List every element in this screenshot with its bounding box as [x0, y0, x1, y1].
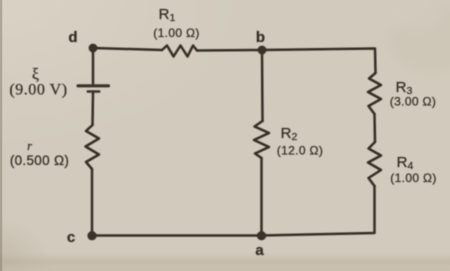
wire: R3 to R4 [373, 114, 376, 142]
node a junction dot [257, 231, 266, 240]
svg-text:(12.0 Ω): (12.0 Ω) [277, 144, 323, 158]
svg-text:r: r [27, 139, 32, 153]
svg-text:c: c [67, 229, 75, 246]
wire: node a to node c (bottom wire) [92, 234, 262, 237]
resistor r [86, 125, 100, 169]
resistor R2 [254, 121, 269, 158]
svg-text:b: b [256, 29, 265, 46]
wire: R1 to node b [197, 49, 262, 52]
svg-text:d: d [68, 29, 77, 46]
wire: node b to top right corner, down right side to R3 [262, 49, 376, 74]
node c junction dot [87, 231, 96, 240]
wire: battery to resistor r [91, 93, 94, 126]
svg-text:(3.00 Ω): (3.00 Ω) [390, 95, 436, 109]
wire: node d down to battery [92, 48, 95, 84]
svg-text:(0.500 Ω): (0.500 Ω) [10, 153, 69, 168]
wire: R2 down to node a [260, 158, 263, 236]
battery plate long (positive) [77, 84, 111, 87]
battery plate short (negative) [87, 90, 101, 93]
node b junction dot [258, 46, 267, 55]
resistor R4 [368, 142, 381, 186]
wire: R4 to bottom right corner to node a [262, 186, 375, 236]
wire: node b down to R2 [261, 50, 264, 121]
resistor R1 [162, 46, 197, 57]
svg-text:a: a [255, 242, 264, 259]
resistor R3 [368, 73, 381, 114]
svg-text:(1.00 Ω): (1.00 Ω) [390, 171, 436, 185]
node d junction dot [89, 44, 98, 53]
wire: top left, node d to R1 [93, 48, 162, 50]
svg-text:(9.00 V): (9.00 V) [9, 82, 67, 99]
wire: resistor r down to node c [91, 169, 94, 236]
svg-text:(1.00 Ω): (1.00 Ω) [153, 26, 199, 40]
svg-text:ξ: ξ [32, 66, 39, 83]
page left edge shadow [0, 0, 2, 271]
